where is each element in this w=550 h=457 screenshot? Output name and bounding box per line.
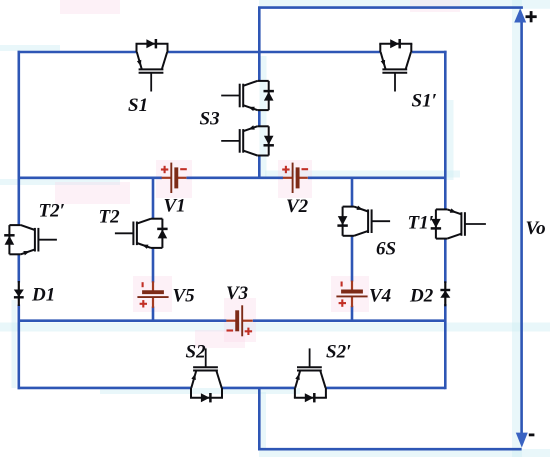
- svg-text:T2′: T2′: [39, 201, 65, 222]
- svg-text:S1′: S1′: [412, 91, 437, 112]
- svg-text:T1′: T1′: [408, 213, 434, 234]
- svg-text:T2: T2: [99, 207, 121, 228]
- svg-text:S2: S2: [186, 342, 207, 363]
- svg-text:V3: V3: [226, 283, 248, 304]
- svg-text:S3: S3: [200, 109, 220, 130]
- svg-text:D2: D2: [409, 286, 434, 307]
- svg-text:S1: S1: [128, 95, 148, 116]
- svg-text:V1: V1: [164, 196, 186, 217]
- svg-text:S2′: S2′: [326, 342, 351, 363]
- svg-text:Vo: Vo: [526, 218, 546, 239]
- svg-text:D1: D1: [31, 285, 55, 306]
- svg-text:V5: V5: [173, 286, 196, 307]
- svg-text:V2: V2: [286, 196, 309, 217]
- svg-text:V4: V4: [369, 286, 391, 307]
- svg-text:6S: 6S: [376, 239, 396, 260]
